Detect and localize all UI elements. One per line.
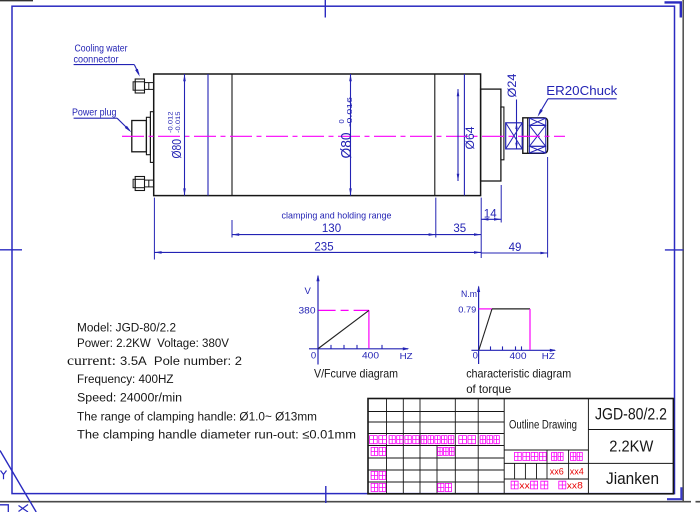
svg-text:Ø24: Ø24 <box>505 73 519 97</box>
svg-text:current:: current: <box>67 353 116 368</box>
svg-text:35: 35 <box>453 223 466 235</box>
svg-text:ER20Chuck: ER20Chuck <box>546 84 618 98</box>
svg-text:clamping and holding range: clamping and holding range <box>282 210 392 221</box>
svg-text:Ø80: Ø80 <box>169 139 184 159</box>
svg-text:V/Fcurve diagram: V/Fcurve diagram <box>314 367 398 381</box>
svg-text:Cooling water: Cooling water <box>75 43 129 54</box>
svg-text:130: 130 <box>322 223 341 235</box>
svg-text:Frequency: 400HZ: Frequency: 400HZ <box>77 372 174 386</box>
svg-text:coonnector: coonnector <box>74 55 120 66</box>
svg-text:235: 235 <box>314 241 333 253</box>
svg-text:400: 400 <box>362 351 379 362</box>
svg-text:The range of clamping handle:: The range of clamping handle: Ø1.0~ Ø13m… <box>77 410 317 424</box>
svg-text:xx: xx <box>519 481 530 492</box>
svg-text:Outline Drawing: Outline Drawing <box>509 419 577 431</box>
svg-text:Jianken: Jianken <box>606 470 659 488</box>
svg-text:400: 400 <box>510 351 527 362</box>
svg-text:-0.016: -0.016 <box>345 97 354 127</box>
svg-text:HZ: HZ <box>400 351 413 361</box>
svg-text:2.2KW: 2.2KW <box>609 439 654 456</box>
svg-text:0: 0 <box>311 351 316 362</box>
svg-text:xx4: xx4 <box>570 466 584 476</box>
svg-text:3.5A Pole number: 2: 3.5A Pole number: 2 <box>120 354 242 368</box>
svg-text:V: V <box>305 286 312 297</box>
svg-text:14: 14 <box>484 208 497 220</box>
svg-text:Power: 2.2KW Voltage: 380V: Power: 2.2KW Voltage: 380V <box>77 336 230 350</box>
svg-text:Power plug: Power plug <box>72 107 117 118</box>
svg-text:The clamping handle diameter r: The clamping handle diameter run-out: ≤0… <box>77 428 356 442</box>
svg-text:JGD-80/2.2: JGD-80/2.2 <box>595 405 667 424</box>
svg-text:N.m: N.m <box>461 289 477 300</box>
svg-text:Speed: 24000r/min: Speed: 24000r/min <box>77 391 182 405</box>
svg-text:0: 0 <box>473 351 478 362</box>
svg-text:380: 380 <box>299 306 316 317</box>
svg-text:-0.015: -0.015 <box>175 111 182 133</box>
svg-text:49: 49 <box>509 242 522 254</box>
svg-text:Ø80: Ø80 <box>339 133 355 159</box>
svg-text:0.79: 0.79 <box>458 304 476 314</box>
svg-text:xx8: xx8 <box>567 481 583 492</box>
svg-text:Ø64: Ø64 <box>463 126 477 149</box>
svg-text:characteristic diagram: characteristic diagram <box>466 367 571 381</box>
svg-text:of torque: of torque <box>466 382 511 396</box>
svg-text:xx6: xx6 <box>550 466 564 476</box>
svg-text:-0.012: -0.012 <box>168 111 175 133</box>
svg-text:Model: JGD-80/2.2: Model: JGD-80/2.2 <box>77 321 176 335</box>
svg-text:HZ: HZ <box>542 351 555 361</box>
